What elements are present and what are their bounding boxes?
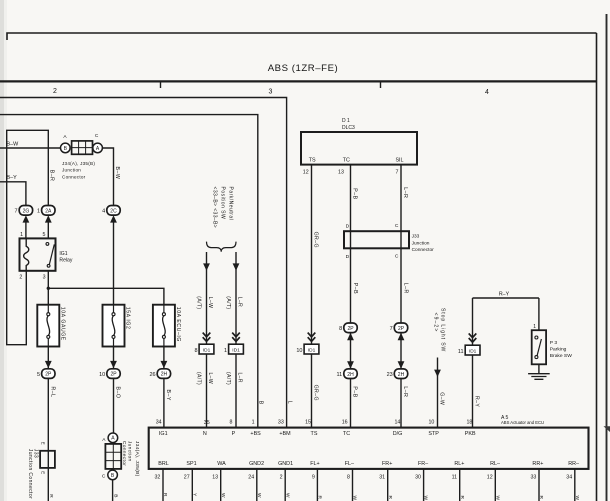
junction connector J34(A) J35(B) vertical — [105, 444, 121, 469]
wire below ECU pin SP1 — [191, 469, 193, 501]
arrow below 2P SIL — [398, 333, 405, 340]
junction connector pin B — [61, 143, 71, 153]
wire below ECU pin GND1 — [284, 469, 286, 501]
connector ID1 column P — [224, 344, 243, 354]
svg-text:13: 13 — [338, 170, 344, 176]
svg-text:TS: TS — [311, 431, 318, 437]
svg-text:34: 34 — [156, 420, 162, 426]
connector 2P SIL column — [390, 323, 408, 333]
connector 2P column2 — [99, 369, 120, 379]
wire below ECU pin GND2 — [256, 469, 258, 501]
svg-text:26: 26 — [149, 372, 155, 378]
svg-text:34: 34 — [566, 475, 572, 481]
svg-text:P: P — [232, 431, 236, 437]
svg-text:R: R — [317, 496, 323, 500]
wire B-Y from 2H to ECU pin IG1 — [163, 379, 165, 428]
wire +BS feed (B) from left margin — [0, 115, 258, 428]
wire R-L below 2P col1 — [47, 379, 49, 501]
wire B-Y from left margin — [0, 182, 26, 206]
svg-text:13: 13 — [212, 475, 218, 481]
svg-text:R–L: R–L — [50, 387, 56, 398]
svg-text:B–W: B–W — [114, 167, 120, 180]
scan gutter band left edge — [0, 0, 4, 501]
svg-text:C: C — [102, 473, 106, 479]
svg-text:L–R: L–R — [236, 373, 242, 383]
arrow into 2C — [110, 215, 117, 222]
svg-text:7: 7 — [15, 209, 18, 215]
wire between 2P and 2H SIL — [400, 333, 402, 369]
wire below ECU pin FL- — [352, 469, 354, 501]
svg-text:J34(A), J35(B): J34(A), J35(B) — [134, 441, 140, 477]
svg-text:TS: TS — [309, 158, 316, 164]
wire 2A to relay pin 5 — [47, 218, 49, 238]
svg-text:P–B: P–B — [351, 386, 357, 397]
svg-text:D 1: D 1 — [342, 118, 350, 124]
svg-text:3: 3 — [269, 89, 273, 96]
svg-text:RL+: RL+ — [454, 461, 464, 467]
svg-text:2: 2 — [53, 88, 57, 95]
svg-text:9: 9 — [312, 475, 315, 481]
relay switch contact bottom — [47, 264, 50, 267]
svg-text:DLC3: DLC3 — [342, 125, 355, 131]
svg-text:R–Y: R–Y — [499, 291, 510, 297]
svg-text:2P: 2P — [110, 372, 117, 378]
svg-text:4: 4 — [485, 89, 489, 96]
svg-text:P–B: P–B — [352, 283, 358, 294]
svg-text:12: 12 — [303, 170, 309, 176]
svg-text:B–R: B–R — [49, 170, 55, 182]
svg-text:30: 30 — [415, 475, 421, 481]
svg-text:FR–: FR– — [418, 461, 428, 467]
svg-text:2: 2 — [280, 475, 283, 481]
svg-text:15A IG2: 15A IG2 — [125, 307, 131, 330]
connector ID1 column TS — [296, 344, 319, 354]
wire below ECU pin WA — [220, 469, 222, 501]
svg-text:27: 27 — [184, 475, 190, 481]
svg-text:23: 23 — [387, 372, 393, 378]
arrowhead on L-W wire — [203, 263, 210, 270]
arrow above 2H TC — [347, 361, 354, 368]
svg-text:RR–: RR– — [568, 461, 579, 467]
svg-text:G–W: G–W — [438, 392, 444, 405]
wire fuse GAUGE down to 2P — [47, 347, 49, 369]
svg-text:(A/T): (A/T) — [225, 372, 231, 385]
wire R-Y down to ID1 — [472, 298, 474, 345]
ground symbol — [528, 374, 550, 380]
arrow into 2H col3 — [161, 361, 168, 368]
svg-text:10: 10 — [428, 419, 434, 425]
wire between 2P and 2H TC — [350, 333, 352, 369]
chevrons into ID1 column PKB — [469, 333, 477, 342]
svg-text:(A/T): (A/T) — [195, 296, 201, 309]
wire relay pin2 loop left-up-right into 2A — [7, 130, 49, 344]
svg-text:10A ECU–IG: 10A ECU–IG — [175, 307, 181, 342]
svg-text:35: 35 — [204, 420, 210, 426]
svg-text:11: 11 — [458, 349, 464, 355]
svg-text:IG1: IG1 — [59, 251, 67, 257]
svg-text:W: W — [284, 493, 290, 498]
svg-text:SIL: SIL — [395, 158, 403, 164]
arrow into 2A — [45, 215, 52, 222]
svg-text:B–Y: B–Y — [165, 390, 171, 401]
svg-text:SP1: SP1 — [186, 461, 196, 467]
svg-text:7: 7 — [396, 170, 399, 176]
svg-text:Parking: Parking — [550, 347, 567, 353]
svg-text:5: 5 — [37, 372, 40, 378]
svg-text:ID1: ID1 — [203, 348, 211, 354]
svg-text:J34(A), J35(B): J34(A), J35(B) — [62, 161, 95, 166]
connector 2C — [102, 206, 120, 216]
svg-text:2G: 2G — [23, 208, 30, 214]
svg-text:WA: WA — [217, 461, 226, 467]
svg-text:R: R — [387, 496, 393, 500]
svg-text:R: R — [48, 494, 54, 498]
wire B-O below 2P col2 — [113, 379, 115, 434]
fuse 10A ECU-IG — [153, 305, 175, 347]
svg-text:BRL: BRL — [158, 461, 169, 467]
wire parking brake SW to ground — [538, 364, 540, 373]
parking brake switch contact top — [535, 336, 538, 339]
svg-text:7: 7 — [390, 326, 393, 332]
svg-text:2H: 2H — [161, 372, 168, 378]
svg-text:L: L — [286, 401, 292, 404]
wire P-B DLC3 TC to 2P — [350, 165, 352, 324]
svg-text:11: 11 — [452, 475, 458, 481]
wire below ECU pin BRL — [162, 469, 164, 501]
svg-text:FR+: FR+ — [382, 461, 392, 467]
svg-text:Position SW: Position SW — [220, 187, 226, 220]
svg-text:Relay: Relay — [59, 257, 72, 263]
svg-text:W: W — [352, 496, 358, 501]
svg-text:<9–2>: <9–2> — [432, 313, 438, 333]
wire L-R 2H to ECU pin D/G — [400, 379, 402, 428]
wire 2C down to fuse 15A IG2 — [113, 218, 115, 305]
connector 2G — [15, 206, 33, 216]
svg-text:C: C — [95, 133, 99, 139]
svg-text:STP: STP — [428, 431, 439, 437]
junction dot relay output — [47, 287, 50, 290]
svg-text:12: 12 — [487, 475, 493, 481]
svg-text:(A/T): (A/T) — [225, 296, 231, 309]
junction connector J34(A) J35(B) — [72, 141, 93, 154]
junction connector pin A — [93, 143, 103, 153]
chevrons into ID1 column N — [203, 333, 211, 342]
svg-text:GND2: GND2 — [249, 461, 264, 467]
connector 2H SIL column — [387, 369, 408, 379]
svg-text:L–R: L–R — [402, 386, 408, 397]
right margin index mark — [604, 426, 610, 432]
wire parking brake SW drop — [538, 298, 540, 330]
svg-text:FL+: FL+ — [310, 461, 319, 467]
svg-text:TC: TC — [343, 158, 350, 164]
svg-text:3: 3 — [43, 275, 46, 281]
relay switch contact top — [46, 243, 49, 246]
svg-text:2H: 2H — [398, 372, 405, 378]
svg-text:Junction: Junction — [62, 168, 81, 173]
svg-text:C: C — [395, 223, 399, 229]
wire R-Y ID1 to ECU pin PKB — [472, 355, 474, 428]
wire P-B 2H to ECU pin TC — [350, 379, 352, 428]
svg-text:ID1: ID1 — [469, 349, 477, 355]
wire below ECU pin RLplus — [459, 469, 461, 501]
fuse 10A GAUGE — [37, 305, 59, 347]
svg-text:2H: 2H — [347, 372, 354, 378]
header ruler line — [0, 80, 597, 82]
svg-text:R: R — [162, 493, 168, 497]
svg-text:GND1: GND1 — [278, 461, 293, 467]
relay coil symbol — [24, 238, 29, 270]
frame right border line — [596, 33, 598, 501]
svg-text:RL–: RL– — [490, 461, 500, 467]
wire below pin B to page bottom — [112, 480, 114, 501]
wire fuse IG2 down to 2P — [113, 347, 115, 369]
svg-text:B–Y: B–Y — [7, 175, 18, 181]
svg-text:31: 31 — [379, 475, 385, 481]
junction pin A bottom connector — [108, 433, 118, 443]
junction pin B bottom connector — [108, 470, 118, 480]
svg-text:Connector: Connector — [62, 174, 86, 179]
svg-text:10: 10 — [296, 348, 302, 354]
arrow above 2H SIL — [398, 361, 405, 368]
svg-text:1: 1 — [37, 209, 40, 215]
svg-text:L–R: L–R — [402, 187, 408, 198]
bus wire to ECU-IG fuse — [48, 288, 164, 304]
svg-text:+BS: +BS — [250, 431, 261, 437]
relay IG1 body — [20, 238, 56, 270]
svg-text:W: W — [494, 496, 500, 501]
svg-text:B: B — [113, 494, 119, 497]
svg-text:ID1: ID1 — [308, 348, 316, 354]
page edge line right — [606, 14, 608, 501]
svg-text:N: N — [203, 431, 207, 437]
connector 2P TC column — [339, 323, 357, 333]
wire L-R (A/T) from park/neutral SW — [235, 252, 237, 344]
svg-text:(A/T): (A/T) — [195, 372, 201, 385]
switch P3 parking brake body — [532, 330, 546, 364]
svg-text:2P: 2P — [398, 326, 405, 332]
connector 2H TC column — [336, 369, 357, 379]
svg-text:TC: TC — [343, 431, 350, 437]
svg-text:GR–G: GR–G — [313, 232, 319, 248]
chevrons into ID1 column P — [232, 333, 240, 342]
chevrons into ID1 column TS — [308, 333, 316, 342]
svg-text:Brake SW: Brake SW — [550, 353, 572, 359]
wire below ECU pin FR- — [423, 469, 425, 501]
svg-text:L–W: L–W — [207, 373, 213, 384]
svg-text:1: 1 — [252, 420, 255, 426]
wire B-W from pin A to 2C — [103, 148, 114, 206]
svg-text:D/G: D/G — [393, 431, 403, 437]
svg-text:16: 16 — [342, 419, 348, 425]
svg-text:P–B: P–B — [352, 188, 358, 199]
wire L-W to ECU pin N — [206, 354, 208, 428]
connector D1 DLC3 — [301, 132, 417, 165]
connector ID1 column PKB — [458, 345, 480, 355]
wire L-R to ECU pin P — [235, 354, 237, 428]
svg-text:15: 15 — [305, 419, 311, 425]
svg-text:Connector: Connector — [412, 247, 435, 253]
ruler tick between grid 3 and 4 — [380, 82, 382, 89]
svg-text:B–O: B–O — [114, 387, 120, 399]
ECU A5 ABS actuator and ECU body — [149, 428, 589, 469]
svg-text:W: W — [256, 493, 262, 498]
svg-text:2C: 2C — [110, 208, 117, 214]
relay switch blade — [49, 244, 54, 264]
svg-text:8: 8 — [347, 475, 350, 481]
wire below ECU pin RL- — [494, 469, 496, 501]
svg-text:18: 18 — [466, 419, 472, 425]
fuse 15A IG2 — [103, 305, 125, 347]
svg-text:+BM: +BM — [279, 431, 291, 437]
svg-text:D: D — [346, 254, 350, 260]
svg-text:IG1: IG1 — [159, 431, 168, 437]
svg-text:GR–G: GR–G — [313, 385, 319, 401]
wire relay pin3 down through fuse feed — [47, 271, 49, 305]
svg-text:W: W — [574, 496, 580, 501]
svg-text:J33: J33 — [412, 234, 420, 240]
svg-text:D: D — [346, 224, 350, 230]
svg-text:Stop Light SW: Stop Light SW — [440, 308, 446, 352]
svg-text:L–R: L–R — [236, 297, 242, 307]
svg-text:11: 11 — [336, 372, 342, 378]
svg-text:14: 14 — [394, 419, 400, 425]
vertical junction grid lines — [105, 444, 121, 469]
svg-text:E: E — [40, 471, 45, 474]
wire below ECU pin FLplus — [316, 469, 318, 501]
svg-text:Park/Neutral: Park/Neutral — [228, 187, 234, 221]
arrowhead on L-R wire — [233, 263, 240, 270]
parking brake switch blade — [537, 339, 541, 356]
svg-text:Junction: Junction — [126, 441, 132, 462]
svg-text:10: 10 — [99, 372, 105, 378]
brace under park/neutral label — [207, 242, 237, 252]
svg-text:B–W: B–W — [7, 141, 20, 147]
junction connector grid lines — [72, 141, 93, 154]
wire below ECU pin FRplus — [387, 469, 389, 501]
wire below ECU pin RRplus — [538, 469, 540, 501]
wire GR-G DLC3 TS to ID1 — [311, 165, 313, 345]
connector 2H column3 — [149, 369, 170, 379]
svg-text:2A: 2A — [45, 208, 52, 214]
svg-text:4: 4 — [102, 209, 105, 215]
arrow into 2P col2 — [110, 361, 117, 368]
wire B-W from left margin — [0, 147, 60, 149]
svg-text:2: 2 — [19, 275, 22, 281]
svg-text:24: 24 — [248, 475, 254, 481]
svg-text:32: 32 — [154, 475, 160, 481]
svg-text:Connector: Connector — [121, 441, 127, 466]
svg-text:Junction: Junction — [412, 240, 430, 246]
svg-text:2P: 2P — [347, 326, 354, 332]
wire GR-G ID1 to ECU pin TS — [311, 354, 313, 428]
parking brake switch contact bottom — [535, 356, 538, 359]
svg-text:PKB: PKB — [465, 431, 476, 437]
arrow below 2P TC — [347, 333, 354, 340]
svg-text:ABS Actuator and ECU: ABS Actuator and ECU — [501, 420, 544, 425]
connector 2A — [37, 206, 55, 216]
junction connector J33 inline — [40, 451, 55, 468]
svg-text:W: W — [220, 493, 226, 498]
svg-text:R: R — [459, 496, 465, 500]
svg-text:FL–: FL– — [345, 461, 354, 467]
svg-text:5: 5 — [43, 232, 46, 238]
wire R-Y horizontal from parking brake SW — [473, 297, 539, 299]
svg-text:8: 8 — [339, 326, 342, 332]
wire L-R DLC3 SIL to 2P — [400, 165, 402, 324]
svg-text:33: 33 — [278, 420, 284, 426]
arrow into 2G — [23, 215, 30, 222]
svg-text:33: 33 — [530, 475, 536, 481]
ruler tick between grid 2 and 3 — [160, 82, 162, 89]
svg-text:E: E — [40, 442, 45, 445]
wire L-W (A/T) from park/neutral SW — [206, 252, 208, 344]
svg-text:P 3: P 3 — [550, 340, 558, 346]
svg-text:W: W — [423, 496, 429, 501]
svg-text:2P: 2P — [45, 372, 52, 378]
svg-text:Junction Connector: Junction Connector — [27, 449, 33, 499]
svg-text:L–W: L–W — [207, 297, 213, 308]
wire G-W from stop light SW to ECU pin STP — [437, 358, 439, 428]
svg-text:RR+: RR+ — [532, 461, 543, 467]
arrow into 2P col1 — [45, 361, 52, 368]
svg-text:1: 1 — [20, 232, 23, 238]
svg-text:B: B — [258, 401, 264, 405]
svg-text:C: C — [395, 254, 399, 260]
svg-text:<33–B> <33–B>: <33–B> <33–B> — [212, 187, 218, 229]
svg-text:R: R — [538, 496, 544, 500]
connector 2P column1 — [37, 369, 55, 379]
svg-text:ABS (1ZR–FE): ABS (1ZR–FE) — [268, 63, 339, 74]
connector ID1 column N — [194, 344, 213, 354]
junction connector J33 horizontal — [344, 231, 409, 248]
svg-text:1: 1 — [224, 348, 227, 354]
wire fuse ECU-IG down to 2H — [163, 347, 165, 369]
svg-text:R–Y: R–Y — [474, 396, 480, 407]
frame top border line — [7, 33, 597, 40]
svg-text:8: 8 — [229, 419, 232, 425]
svg-text:L–R: L–R — [402, 283, 408, 294]
svg-text:8: 8 — [194, 348, 197, 354]
arrowhead on G-W wire — [434, 370, 441, 377]
wire below ECU pin RR- — [574, 469, 576, 501]
svg-text:10A GAUGE: 10A GAUGE — [60, 307, 66, 341]
svg-text:ID1: ID1 — [232, 348, 240, 354]
wire 2G to relay pin 1 — [25, 218, 27, 238]
wire +BM feed (L) from left margin — [0, 98, 287, 428]
